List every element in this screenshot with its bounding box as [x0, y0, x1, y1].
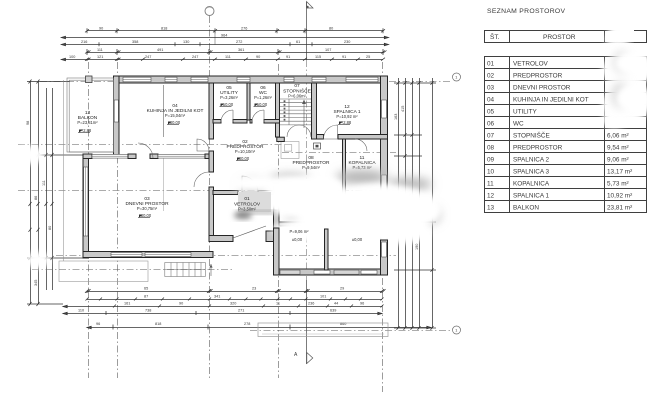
divider line in dnevni	[163, 159, 165, 212]
balcony outline	[67, 78, 114, 152]
section flag A top	[307, 2, 314, 9]
svg-text:03: 03	[487, 85, 495, 92]
svg-text:PREDPROSTOR: PREDPROSTOR	[513, 145, 563, 152]
door: entrance swing	[233, 226, 266, 238]
door arc: predprostor8 door	[355, 139, 367, 151]
svg-text:87: 87	[144, 295, 148, 299]
svg-text:07: 07	[294, 83, 300, 89]
door arc: dnevni top	[138, 143, 153, 158]
svg-text:10: 10	[487, 169, 495, 176]
balcony post	[86, 76, 93, 83]
svg-text:11: 11	[276, 301, 280, 305]
wall: dnevni prostor protrusion left	[83, 154, 89, 258]
svg-text:P=10,10m²: P=10,10m²	[235, 149, 256, 154]
svg-text:23,81 m²: 23,81 m²	[607, 205, 632, 212]
svg-text:96: 96	[360, 301, 364, 305]
wall: kopalnica-predprostor8 x=343	[343, 139, 346, 226]
svg-text:P=3,26m²: P=3,26m²	[220, 95, 238, 100]
bottom dimension line 2	[86, 298, 384, 301]
svg-text:±0,00: ±0,00	[292, 237, 303, 242]
table header row	[485, 31, 647, 43]
svg-text:STOPNIŠČE: STOPNIŠČE	[513, 131, 550, 140]
grid line vertical x=88	[88, 62, 90, 378]
svg-text:818: 818	[155, 322, 161, 326]
bottom dimension line 4	[63, 311, 382, 315]
svg-text:358: 358	[132, 40, 138, 44]
window/door: left wall opening to balcony	[114, 100, 118, 122]
svg-text:86: 86	[34, 196, 38, 200]
grid line vertical x=117	[117, 62, 119, 378]
wall: kuhinja right / vetrolov left x=209	[209, 83, 214, 139]
svg-text:1: 1	[455, 329, 457, 333]
staircase rail dots	[284, 100, 286, 120]
terrace outline bottom	[258, 323, 388, 337]
wall: spalnica2-3 partition x=325	[325, 229, 329, 270]
svg-text:272: 272	[236, 40, 242, 44]
svg-text:216: 216	[81, 40, 87, 44]
wall: utility-wc partition	[247, 83, 250, 120]
header right box fragment over blob	[634, 31, 647, 43]
svg-text:236: 236	[308, 301, 314, 305]
door arc: kuhinja to predprostor	[197, 139, 209, 151]
grid line horizontal y=81.5	[40, 81, 113, 83]
exterior entrance steps	[165, 263, 206, 277]
white blur blobs over plan	[12, 146, 442, 268]
wall: corridor bottom y=222 right wing	[277, 222, 388, 226]
svg-text:738: 738	[145, 308, 151, 312]
svg-text:80: 80	[48, 226, 52, 230]
svg-text:361: 361	[238, 48, 244, 52]
wall block left of stair bottom	[277, 137, 285, 141]
level mark wedges	[78, 104, 350, 218]
svg-text:UTILITY: UTILITY	[513, 109, 538, 116]
svg-text:VETROLOV: VETROLOV	[513, 61, 549, 68]
door arc: dnevni to vetrolov corridor	[194, 172, 209, 187]
svg-text:SPALNICA 2: SPALNICA 2	[513, 157, 550, 164]
svg-text:100: 100	[69, 55, 75, 59]
svg-text:44: 44	[334, 301, 338, 305]
door arc: wc	[252, 110, 264, 122]
svg-text:111: 111	[42, 180, 46, 186]
elements visible over blobs	[234, 192, 388, 275]
svg-text:P=15,04m²: P=15,04m²	[165, 113, 186, 118]
door arcs below staircase	[287, 125, 299, 137]
svg-text:SPALNICA 3: SPALNICA 3	[513, 169, 550, 176]
bottom dimension line 5	[87, 325, 431, 330]
svg-text:5,73 m²: 5,73 m²	[607, 181, 629, 188]
svg-text:964: 964	[221, 33, 227, 37]
svg-text:111: 111	[225, 55, 231, 59]
svg-text:320: 320	[230, 301, 236, 305]
connector stub x=215	[214, 31, 216, 45]
bottom dimension line 1	[85, 289, 386, 293]
svg-text:818: 818	[161, 27, 167, 31]
svg-text:23: 23	[252, 287, 256, 291]
svg-text:161: 161	[124, 301, 130, 305]
grid line horizontal y=269 left	[32, 269, 233, 271]
svg-text:61: 61	[296, 40, 300, 44]
svg-text:278: 278	[244, 322, 250, 326]
svg-text:±0,00: ±0,00	[352, 237, 363, 242]
svg-text:13: 13	[487, 205, 495, 212]
svg-text:08: 08	[487, 145, 495, 152]
svg-text:860: 860	[340, 322, 346, 326]
svg-text:P=6,06m²: P=6,06m²	[288, 94, 306, 99]
table rows text	[487, 61, 632, 212]
wall: under utility/wc y=119.5	[213, 120, 221, 124]
svg-text:276: 276	[241, 27, 247, 31]
wall: spalnica1 bottom y=134.5	[317, 135, 324, 140]
wall: right wing bottom exterior	[274, 269, 388, 275]
svg-text:91: 91	[342, 55, 346, 59]
svg-text:WC: WC	[513, 121, 524, 128]
svg-text:1: 1	[455, 76, 457, 80]
svg-text:247: 247	[192, 55, 198, 59]
svg-text:130: 130	[183, 40, 189, 44]
vetrolov label highlight box	[238, 192, 271, 212]
svg-text:04: 04	[487, 97, 495, 104]
section line A x=306	[306, 2, 308, 60]
svg-text:163: 163	[394, 114, 398, 120]
svg-text:96: 96	[96, 322, 100, 326]
top dimension line 5	[61, 58, 385, 61]
svg-text:271: 271	[238, 308, 244, 312]
grid bubble right bottom	[453, 326, 461, 334]
svg-text:P=5,73 m²: P=5,73 m²	[353, 165, 373, 170]
svg-text:98: 98	[26, 121, 30, 125]
svg-text:05: 05	[487, 109, 495, 116]
svg-text:11: 11	[487, 181, 494, 188]
svg-text:01: 01	[244, 196, 250, 202]
svg-text:29: 29	[340, 287, 344, 291]
entrance porch arrow	[210, 264, 212, 276]
svg-text:P=10,92 m²: P=10,92 m²	[336, 114, 358, 119]
wall: vetrolov right x=274	[274, 183, 280, 275]
table blur blobs	[602, 22, 654, 128]
closet under stairs	[281, 142, 299, 159]
svg-text:12: 12	[487, 193, 495, 200]
bottom dimension line 3	[63, 305, 384, 308]
svg-text:09: 09	[487, 157, 495, 164]
svg-text:13,17 m²: 13,17 m²	[607, 169, 632, 176]
svg-text:341: 341	[214, 295, 220, 299]
dark smudge below vetrolov label	[234, 212, 252, 219]
window: top wall openings	[123, 77, 378, 82]
staircase up arrow	[303, 101, 305, 128]
door arc: utility	[221, 110, 233, 122]
svg-text:491: 491	[157, 48, 163, 52]
grid line vertical x=278	[278, 64, 280, 378]
wall: stopnisce-spalnica1 partition	[312, 83, 317, 139]
wall: dnevni top y=154 segments with windows	[83, 154, 92, 159]
svg-text:90: 90	[256, 55, 260, 59]
vetrolov right wall lower redraw	[274, 228, 280, 275]
svg-text:P=9,06 m²: P=9,06 m²	[290, 229, 310, 234]
svg-text:115: 115	[315, 55, 321, 59]
svg-text:6,06 m²: 6,06 m²	[607, 133, 629, 140]
svg-text:9,06 m²: 9,06 m²	[607, 157, 629, 164]
svg-text:25: 25	[366, 55, 370, 59]
wall: entry bottom y=235.5	[209, 236, 233, 242]
svg-text:P=23,81m²: P=23,81m²	[77, 120, 98, 125]
svg-text:KUHINJA IN JEDILNI KOT: KUHINJA IN JEDILNI KOT	[513, 97, 589, 104]
table body grid	[485, 57, 647, 213]
svg-text:90: 90	[99, 27, 103, 31]
right dimension lines	[394, 78, 436, 330]
svg-text:415: 415	[401, 106, 405, 112]
blur shadow smudges	[240, 170, 440, 225]
svg-text:PREDPROSTOR: PREDPROSTOR	[513, 73, 563, 80]
svg-text:P=30,75m²: P=30,75m²	[137, 206, 158, 211]
top dimension line 1	[85, 28, 385, 33]
svg-text:02: 02	[487, 73, 495, 80]
wall: vetrolov top y=190.5	[213, 191, 238, 195]
svg-text:345: 345	[34, 280, 38, 286]
svg-text:P=1,26m²: P=1,26m²	[254, 95, 272, 100]
top dimension line 2	[61, 36, 388, 38]
svg-text:KOPALNICA: KOPALNICA	[513, 181, 550, 188]
grid line vertical B x=209.5	[209, 16, 211, 378]
svg-text:65: 65	[144, 287, 148, 291]
grid line horizontal y=257.5	[56, 255, 396, 257]
door arc: vetrolov to predprostor	[242, 176, 258, 192]
svg-text:121: 121	[97, 55, 103, 59]
svg-text:P=3,50m²: P=3,50m²	[238, 207, 256, 212]
svg-text:10,92 m²: 10,92 m²	[607, 193, 632, 200]
left dimension lines	[27, 80, 83, 307]
patio outline left of entrance	[59, 261, 148, 282]
top dimension line 3	[61, 42, 388, 46]
room label: spalnica2 area	[290, 229, 363, 242]
svg-text:111: 111	[97, 48, 103, 52]
eaves line left	[63, 80, 65, 261]
svg-text:190: 190	[415, 244, 419, 250]
grid bubble right top	[453, 73, 461, 81]
door arc: spalnica1	[324, 125, 338, 139]
svg-text:9,54 m²: 9,54 m²	[607, 145, 629, 152]
svg-text:90: 90	[179, 301, 183, 305]
kitchen counter line	[163, 85, 165, 137]
grid line horizontal y=190.6	[18, 190, 396, 192]
svg-text:SPALNICA 1: SPALNICA 1	[513, 193, 550, 200]
svg-text:06: 06	[487, 121, 495, 128]
wall: main top exterior	[114, 76, 388, 83]
svg-text:101: 101	[320, 295, 326, 299]
svg-text:01: 01	[487, 61, 495, 68]
top dimension line 4	[85, 49, 387, 55]
svg-text:ŠT.: ŠT.	[490, 32, 500, 41]
svg-text:80: 80	[329, 27, 333, 31]
svg-text:PROSTOR: PROSTOR	[543, 34, 576, 41]
svg-text:91: 91	[286, 55, 290, 59]
column marker at stair wall	[314, 143, 321, 149]
wall: main right exterior	[381, 76, 388, 275]
svg-text:639: 639	[330, 308, 336, 312]
svg-text:BALKON: BALKON	[513, 205, 539, 212]
staircase treads	[280, 99, 311, 125]
window: dnevni left big window	[84, 167, 88, 236]
wall: right wall lower segment redraw	[381, 240, 388, 275]
wall: dnevni bottom exterior	[83, 252, 213, 258]
svg-text:P=9,54m²: P=9,54m²	[302, 165, 320, 170]
svg-text:110: 110	[78, 308, 84, 312]
grid line horizontal y=330 to circle 1	[250, 330, 452, 332]
wall: wc-stopnisce partition	[276, 83, 280, 137]
grid line vertical x=382	[382, 62, 384, 392]
svg-text:107: 107	[325, 48, 331, 52]
svg-text:230: 230	[344, 40, 350, 44]
grid line horizontal y=144.3	[18, 144, 282, 146]
svg-text:DNEVNI PROSTOR: DNEVNI PROSTOR	[513, 85, 571, 92]
svg-text:07: 07	[487, 133, 495, 140]
grid bubble B top	[205, 7, 214, 16]
svg-text:247: 247	[145, 55, 151, 59]
svg-text:SEZNAM PROSTOROV: SEZNAM PROSTOROV	[487, 8, 565, 15]
wall: main left exterior	[114, 76, 120, 155]
